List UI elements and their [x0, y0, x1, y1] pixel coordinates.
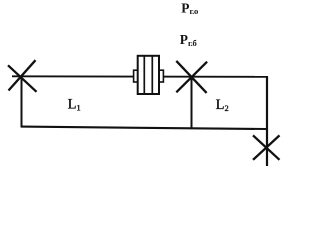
tap X1 left cross [8, 60, 37, 92]
label P r.o [181, 0, 198, 16]
wire right vertical drop [266, 76, 268, 166]
wire main horizontal line [12, 75, 267, 78]
label P r.b [180, 32, 197, 48]
wire left vertical segment [21, 77, 23, 128]
tap X3 bottom-right cross [253, 135, 280, 159]
wire bottom horizontal line [21, 127, 266, 129]
restrictor block body [134, 56, 164, 94]
label L1 [68, 97, 81, 113]
label L2 [216, 97, 229, 113]
tap X2 middle cross [176, 61, 207, 93]
wire middle vertical segment below tap X2 [191, 77, 193, 128]
